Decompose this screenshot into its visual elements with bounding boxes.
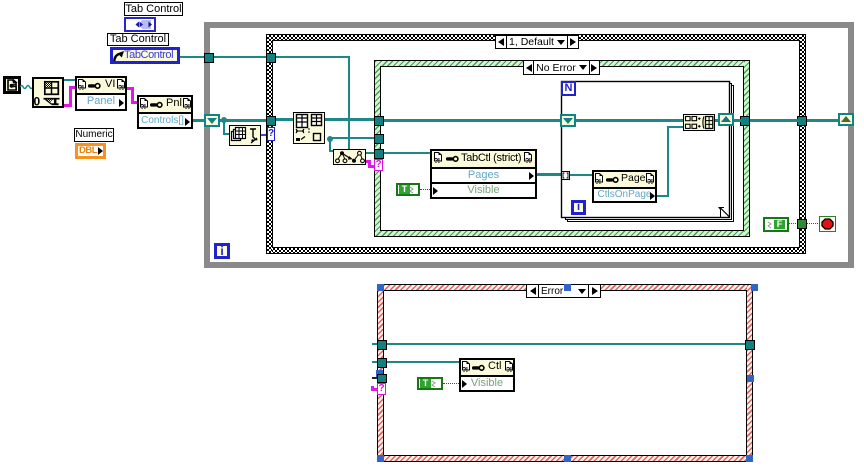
wire: Controls[] to while loop shift register: [193, 119, 206, 122]
wire case tunnel to while SR: [807, 119, 839, 122]
tunnel error case left y362: [377, 358, 387, 368]
tunnel green case right y120: [740, 116, 750, 126]
tab control terminal: [124, 17, 156, 32]
tunnel green case y153: [374, 149, 384, 159]
property node TabCtl (strict): [430, 149, 537, 199]
tunnel on while loop border (TabControl refnum): [204, 53, 214, 63]
tunnel green case y138: [374, 134, 384, 144]
wire inside case y120 left of subVI2: [276, 118, 293, 121]
case selector label "No Error": [523, 60, 600, 75]
wire: subVI to case selector (int): [261, 134, 268, 136]
function: open panel reference: [32, 77, 64, 108]
junction dot at subVI2 lower output: [327, 136, 333, 142]
error wire: open fn to VI property node: [64, 104, 72, 107]
while loop iteration terminal i: [214, 243, 230, 259]
for loop: [559, 79, 737, 225]
tunnel green case y120: [374, 116, 384, 126]
selection handle top-mid: [564, 284, 571, 291]
build array: [683, 114, 715, 131]
svg-text:0: 0: [34, 95, 41, 107]
boolean constant T (green case): [396, 183, 420, 196]
case structure Error (selected): [377, 284, 753, 462]
wire right SR to green tunnel: [734, 119, 741, 122]
tunnel on case border y57: [266, 53, 276, 63]
label Tab Control (refnum label): [107, 33, 169, 46]
wire subVI2 to green case y120: [325, 118, 375, 121]
wire inside case y57: [276, 56, 350, 58]
wire SR to build array y120: [576, 119, 683, 122]
green case selector terminal ? (error cluster): [374, 159, 383, 171]
property node Page (CtlsOnPage): [592, 170, 657, 203]
wire: tunnel to case structure (y57): [214, 56, 267, 58]
subVI: get tab control info: [229, 125, 261, 146]
case structure No Error: [374, 60, 750, 237]
for loop left shift register: [560, 114, 576, 127]
selection handle top-right: [751, 284, 758, 291]
property node Pnl (Controls[]): [137, 95, 193, 129]
wire (squiggle) class const to open function: [20, 83, 33, 91]
wire stub outside y362: [372, 361, 377, 363]
tunnel on case border y120: [266, 116, 276, 126]
dotted wire tunnel to stop terminal: [807, 223, 820, 224]
case selector label "1, Default": [495, 35, 579, 49]
dotted wire T to Visible: [420, 189, 430, 190]
wire y153 tunnel3 to TabCtl node: [384, 152, 430, 154]
wire y120 green tunnel to for loop: [384, 119, 562, 122]
wire cast to tunnel3 y153: [366, 152, 375, 154]
green tunnel on case border: [797, 219, 807, 229]
label Tab Control (terminal label): [124, 2, 183, 16]
wire: junction down to subVI: [223, 120, 225, 135]
wire y362 to Ctl node: [387, 361, 459, 363]
wire dot to tunnel2 y138: [329, 137, 375, 139]
conditional F constant: [763, 217, 789, 232]
boolean constant T (error case): [417, 377, 443, 390]
class constant (VI server class): [3, 76, 21, 94]
while loop right shift register: [838, 113, 854, 126]
for loop right shift register: [718, 113, 734, 126]
wire Pages out to for loop: [537, 173, 562, 176]
wire: open fn to VI property node: [64, 79, 75, 81]
error wire stub outside: [371, 388, 377, 391]
wire junction dot: [221, 117, 227, 123]
auto-index tunnel []: [561, 171, 570, 180]
label Numeric: [74, 128, 114, 142]
tunnel error case left y344: [377, 340, 387, 350]
case selector terminal ?: [267, 127, 275, 141]
dotted wire T to Visible (error case): [443, 383, 459, 384]
error wire: VI node to Pnl node: [127, 87, 134, 90]
selection handle right-mid: [747, 375, 754, 382]
TabControl refnum constant: [110, 47, 180, 64]
for loop iteration terminal i: [571, 200, 586, 215]
wire stub outside y344: [372, 343, 377, 345]
tunnel on case right border y120: [797, 116, 807, 126]
property node Ctl (Visible): [459, 358, 515, 392]
wire across error case y344: [387, 343, 745, 345]
wire green tunnel to case tunnel: [750, 119, 798, 122]
case selector label "Error": [526, 284, 601, 298]
wire CtlsOnPage out and up to build array: [657, 195, 669, 197]
cast: to more specific class: [333, 149, 366, 165]
selection handle top-left: [377, 284, 384, 291]
DBL numeric terminal: [75, 143, 106, 159]
tunnel error case left y378 (under handle): [377, 374, 387, 383]
wire: TabControl to while loop: [180, 56, 206, 58]
for loop count terminal N: [561, 81, 576, 96]
while loop left shift register: [204, 114, 220, 127]
while loop conditional (stop) terminal: [819, 216, 836, 232]
error wire cast to green case selector: [366, 160, 369, 163]
wire build array to right SR: [715, 119, 720, 122]
tunnel error case right y344: [745, 340, 755, 350]
dotted wire F to tunnel: [789, 223, 798, 224]
error case selector terminal ?: [377, 383, 386, 395]
selection handle bottom-right: [746, 455, 753, 462]
selection handle bottom-left: [377, 455, 384, 462]
wire vertical x349: [348, 56, 350, 150]
case structure 1,Default: [266, 34, 806, 254]
wire [] to Page node: [570, 174, 592, 176]
wire dot down to cast: [329, 139, 331, 152]
wire: left SR to case (y120): [220, 119, 267, 122]
property node VI (Panel): [75, 76, 127, 111]
wire stub outside y378: [372, 377, 377, 379]
selection handle left-mid: [376, 370, 383, 377]
subVI2: tab pages util: [293, 112, 325, 144]
while loop: [204, 22, 854, 268]
selection handle bottom-mid: [564, 455, 571, 462]
